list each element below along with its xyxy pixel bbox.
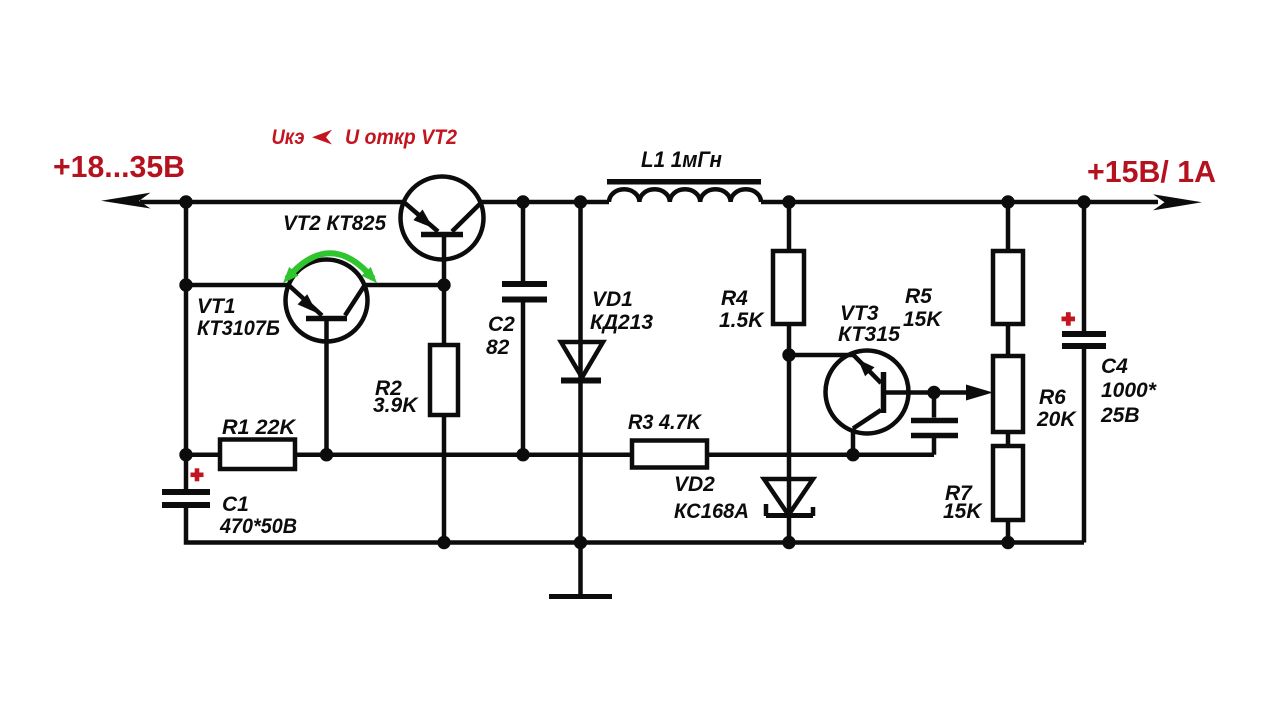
svg-text:+18...35B: +18...35B [53,149,185,184]
svg-text:R3 4.7K: R3 4.7K [628,411,703,434]
svg-text:L1 1мГн: L1 1мГн [641,147,722,172]
svg-text:Uкэ: Uкэ [272,125,305,149]
svg-text:20K: 20K [1036,408,1077,431]
svg-text:+15B/ 1A: +15B/ 1A [1087,154,1216,189]
svg-text:1.5K: 1.5K [719,309,765,332]
svg-text:VD2: VD2 [674,473,715,496]
svg-text:КТ315: КТ315 [838,323,900,346]
svg-text:R1 22K: R1 22K [222,416,297,439]
svg-text:15K: 15K [903,308,943,331]
svg-text:C2: C2 [488,313,515,336]
svg-text:R5: R5 [905,285,932,308]
svg-text:C1: C1 [222,493,249,516]
svg-text:1000*: 1000* [1101,379,1157,402]
svg-text:VT2 КТ825: VT2 КТ825 [283,212,386,235]
svg-text:VT1: VT1 [197,295,236,318]
svg-text:КД213: КД213 [590,311,653,334]
svg-text:U откр VT2: U откр VT2 [345,125,457,149]
svg-text:470*50В: 470*50В [219,515,297,538]
svg-text:C4: C4 [1101,355,1128,378]
svg-text:R6: R6 [1039,386,1066,409]
svg-text:15K: 15K [943,500,983,523]
svg-text:3.9K: 3.9K [373,394,419,417]
svg-text:КС168А: КС168А [674,500,749,523]
svg-text:VT3: VT3 [840,302,879,325]
svg-text:25В: 25В [1100,404,1140,427]
svg-text:КТ3107Б: КТ3107Б [197,317,280,340]
svg-text:82: 82 [486,336,510,359]
svg-text:VD1: VD1 [592,288,633,311]
svg-text:R4: R4 [721,287,748,310]
